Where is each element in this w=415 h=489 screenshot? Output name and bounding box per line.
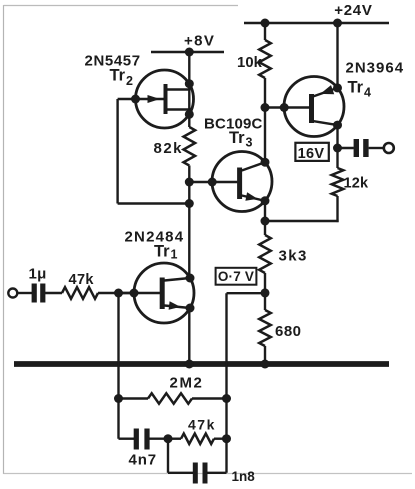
svg-text:O·7 V: O·7 V [218, 269, 254, 284]
svg-text:2N3964: 2N3964 [346, 60, 405, 77]
svg-text:1n8: 1n8 [232, 469, 256, 484]
svg-text:12k: 12k [344, 176, 370, 192]
svg-text:4: 4 [364, 86, 371, 100]
svg-text:10k: 10k [237, 55, 263, 71]
svg-text:2M2: 2M2 [170, 375, 204, 392]
svg-text:Tr: Tr [110, 67, 126, 85]
svg-text:+8V: +8V [184, 32, 215, 49]
svg-text:1μ: 1μ [29, 266, 47, 283]
svg-text:680: 680 [275, 323, 302, 340]
svg-text:+24V: +24V [334, 2, 372, 19]
svg-text:Tr: Tr [154, 243, 170, 261]
svg-text:3k3: 3k3 [279, 248, 308, 265]
svg-text:4n7: 4n7 [129, 452, 158, 469]
svg-text:3: 3 [246, 136, 253, 150]
svg-text:Tr: Tr [229, 129, 245, 147]
svg-text:2: 2 [126, 74, 133, 88]
svg-text:1: 1 [171, 248, 178, 262]
svg-text:47k: 47k [188, 417, 216, 433]
svg-text:82k: 82k [154, 140, 184, 157]
svg-text:16V: 16V [298, 146, 325, 162]
svg-text:Tr: Tr [348, 79, 364, 97]
svg-text:47k: 47k [69, 272, 95, 288]
